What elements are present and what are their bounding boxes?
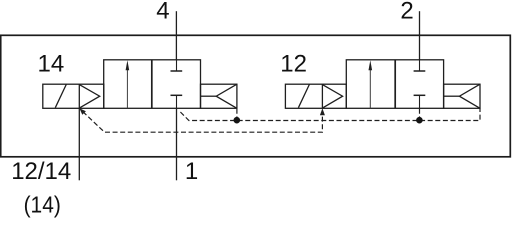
svg-text:1: 1 — [185, 158, 198, 185]
svg-text:(14): (14) — [24, 191, 61, 217]
svg-text:12: 12 — [280, 50, 307, 77]
svg-text:4: 4 — [156, 0, 169, 25]
svg-text:14: 14 — [38, 50, 65, 77]
svg-text:12/14: 12/14 — [11, 158, 71, 185]
svg-text:2: 2 — [400, 0, 413, 25]
